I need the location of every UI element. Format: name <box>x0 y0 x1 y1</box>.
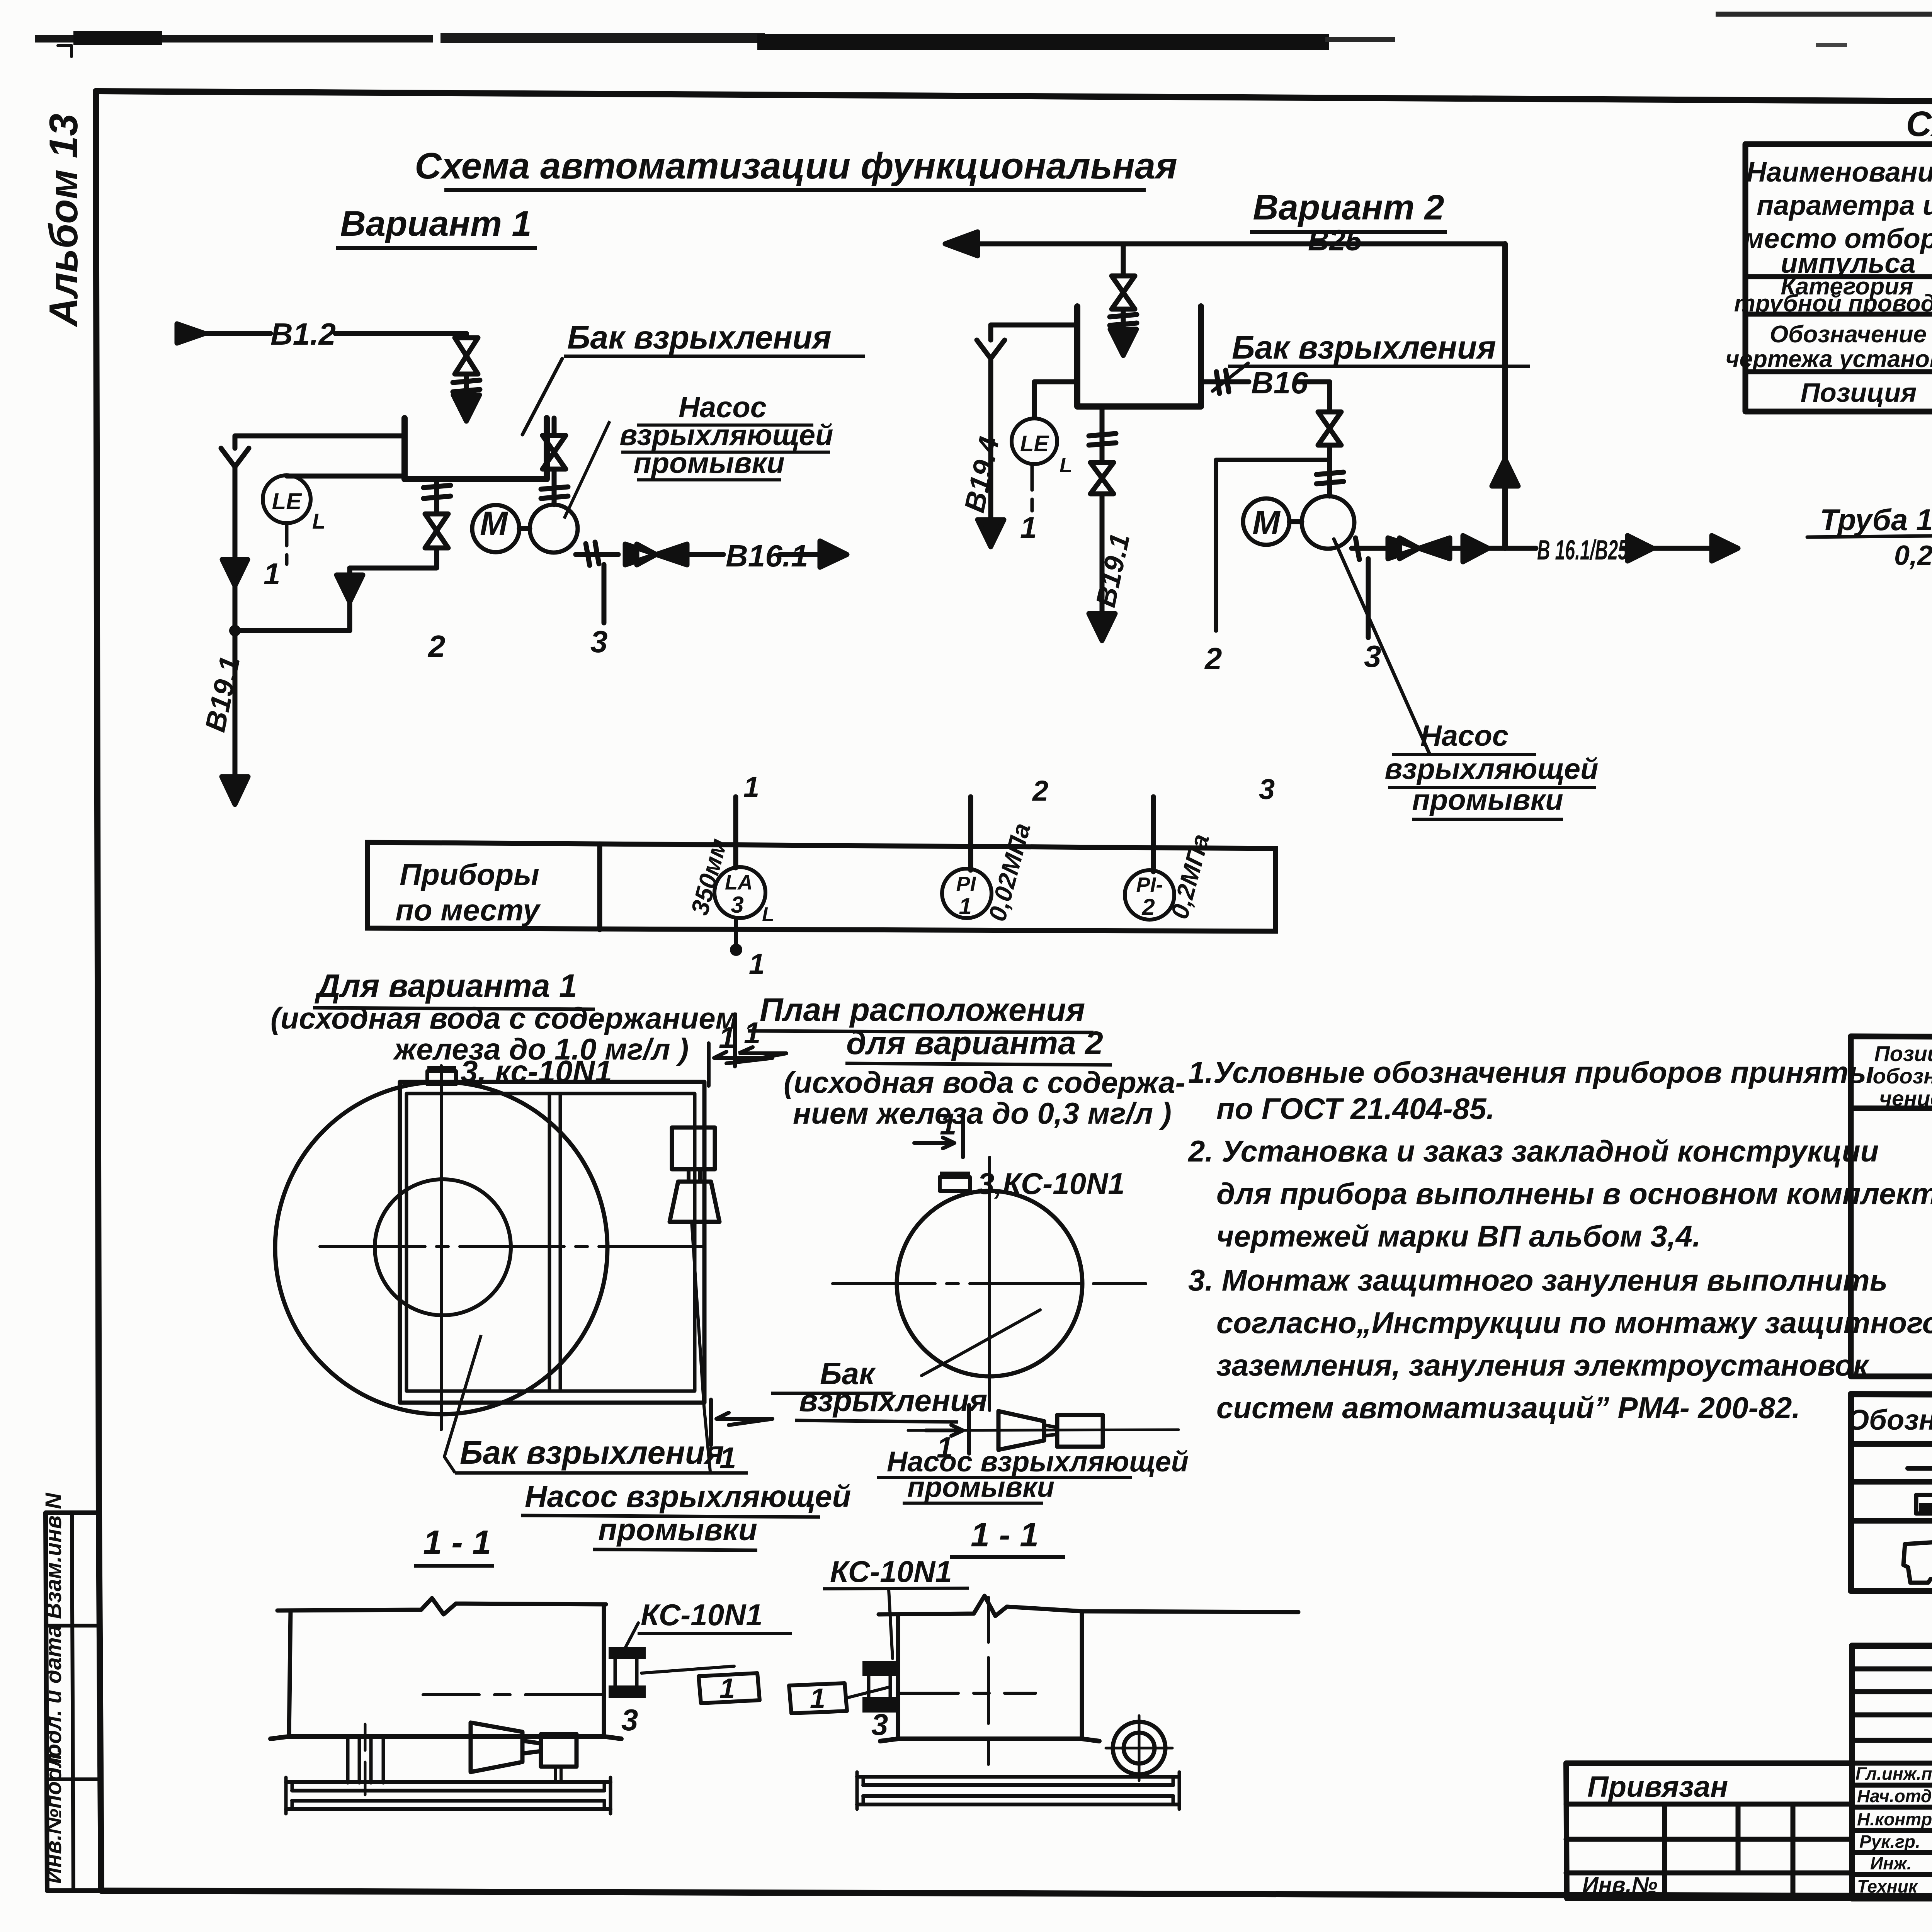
svg-text:3: 3 <box>1364 639 1381 673</box>
svg-text:М: М <box>480 505 509 542</box>
leader насос2 <box>1334 539 1430 754</box>
svg-text:LA: LA <box>725 871 753 894</box>
svg-text:Позиция: Позиция <box>1801 378 1917 408</box>
plan1 pump trapezoid <box>670 1182 719 1222</box>
boxed tag 1 v2 <box>789 1683 847 1713</box>
leader бак plan2 <box>922 1310 1040 1376</box>
base beam v1 right cap <box>604 1777 611 1814</box>
connection table outer <box>1745 144 1932 412</box>
KS-10N1 leader v1 <box>622 1623 638 1654</box>
tank section v1 top with break <box>277 1598 606 1614</box>
svg-text:1: 1 <box>749 948 765 980</box>
underline <box>823 1588 969 1589</box>
svg-text:0,2 м: 0,2 м <box>1894 540 1932 571</box>
plan2 horizontal centerline <box>833 1282 1146 1285</box>
support posts v1 <box>348 1739 383 1783</box>
arrow into tank 2 <box>1110 309 1136 355</box>
plan1 pump neck <box>689 1169 700 1182</box>
svg-text:LE: LE <box>1020 431 1049 456</box>
tank 1 (бак взрыхления) <box>405 418 547 479</box>
valve on tank2 inlet <box>1112 276 1135 309</box>
base beam v2 left cap <box>857 1772 863 1809</box>
pump circle variant1 <box>530 505 578 553</box>
junction dot below box <box>730 944 742 956</box>
small rows lines <box>1852 1669 1932 1740</box>
arrow B19.1 end <box>222 777 248 804</box>
instrument circle PI1 <box>942 869 992 918</box>
post centerline dash v1 <box>364 1724 367 1795</box>
section mark left v2 <box>735 1014 786 1066</box>
pump circle variant2 <box>1302 496 1354 549</box>
svg-text:В 16.1/В25: В 16.1/В25 <box>1537 535 1628 566</box>
underline <box>414 1564 494 1568</box>
svg-text:3: 3 <box>590 624 608 659</box>
flange discharge2 <box>1355 538 1359 560</box>
svg-text:2: 2 <box>427 629 446 663</box>
wire drain jog <box>350 548 437 568</box>
привязан block outer <box>1566 1763 1852 1898</box>
wire below LA to dot <box>734 918 738 946</box>
scan streak band mid <box>440 33 765 43</box>
plan1 inner circle <box>375 1179 511 1315</box>
svg-text:М: М <box>1252 504 1281 541</box>
tank1 bottom drain wire <box>434 479 439 514</box>
svg-text:1 - 1: 1 - 1 <box>423 1523 491 1561</box>
scan streak heavy band <box>757 34 1329 50</box>
svg-text:РI-: РI- <box>1136 873 1163 896</box>
subtitle underline <box>1250 230 1447 234</box>
underlines насос v1 <box>621 425 830 480</box>
svg-text:Приборы: Приборы <box>400 857 539 891</box>
svg-text:РI: РI <box>956 872 976 896</box>
svg-text:1: 1 <box>719 1020 735 1054</box>
svg-text:систем автоматизаций” РМ4- 20: систем автоматизаций” РМ4- 200-82. <box>1216 1391 1800 1425</box>
svg-text:для прибора выполнены в основн: для прибора выполнены в основном комплек… <box>1216 1177 1932 1211</box>
svg-text:(исходная вода с содержа-: (исходная вода с содержа- <box>784 1065 1185 1099</box>
svg-text:Обозначение: Обозначение <box>1847 1404 1932 1436</box>
pump trapezoid section v1 <box>471 1723 522 1772</box>
section mark bottom v1 <box>711 1400 772 1445</box>
wire tank1 funnel line <box>235 436 405 448</box>
underline <box>638 1632 792 1635</box>
level line dash-dot v1 <box>423 1693 605 1696</box>
svg-text:Насос взрыхляющей: Насос взрыхляющей <box>525 1479 851 1514</box>
wire below valve <box>464 374 469 393</box>
svg-text:нием железа до 0,3 мг/л ): нием железа до 0,3 мг/л ) <box>793 1096 1172 1130</box>
nozzle v2 <box>869 1672 890 1699</box>
plan1 pump leader long <box>692 1222 710 1471</box>
arrow B25 out left <box>945 232 978 256</box>
wire drain continue down <box>233 631 238 775</box>
svg-text:обозна: обозна <box>1873 1064 1932 1088</box>
wire B25 main horizontal <box>974 241 1505 247</box>
motor M circle variant1 <box>472 505 519 552</box>
wire above LA <box>733 797 738 868</box>
motor M circle variant2 <box>1243 498 1289 545</box>
привязан row line <box>1566 1802 1852 1807</box>
underline <box>455 1471 748 1475</box>
funnel variant2 <box>977 340 1005 518</box>
svg-text:3: 3 <box>731 892 743 918</box>
svg-text:Инж.: Инж. <box>1870 1853 1912 1873</box>
subtitle underline <box>336 246 537 250</box>
row under обозначение <box>1745 369 1932 374</box>
svg-text:2: 2 <box>1141 894 1155 920</box>
svg-text:Позиц.: Позиц. <box>1874 1041 1932 1066</box>
underlines <box>521 1515 820 1550</box>
heading underline <box>313 1008 595 1009</box>
flange on inlet <box>453 380 480 392</box>
svg-text:L: L <box>762 903 774 926</box>
box divider <box>597 844 602 930</box>
svg-text:КС-10N1: КС-10N1 <box>830 1554 952 1588</box>
base beam v1 bottom flange <box>286 1801 611 1809</box>
труба callout underline <box>1807 535 1932 537</box>
wire above PI1 <box>968 797 973 870</box>
wire below LE dashed <box>285 523 289 564</box>
base beam v2 bottom flange <box>857 1796 1179 1804</box>
svg-text:по ГОСТ 21.404-85.: по ГОСТ 21.404-85. <box>1216 1092 1495 1126</box>
heading underline <box>748 1031 1094 1032</box>
junction dot <box>229 625 241 636</box>
node B1.2 inlet arrow <box>177 324 205 343</box>
svg-text:1: 1 <box>719 1673 735 1704</box>
instrument circle PI2 <box>1125 870 1174 920</box>
svg-text:2. Установка и заказ заклад: 2. Установка и заказ закладной конструкц… <box>1187 1134 1879 1168</box>
svg-text:КС-10N1: КС-10N1 <box>641 1598 763 1632</box>
leader tank2 label <box>1213 363 1248 391</box>
svg-text:взрыхления: взрыхления <box>799 1383 987 1418</box>
svg-text:LE: LE <box>272 488 303 514</box>
wire after label <box>780 552 819 557</box>
wire motor to pump <box>519 526 530 531</box>
flange lower left wall v2 <box>862 1697 898 1713</box>
center dash line v2 <box>987 1597 990 1764</box>
stamp strip divider row 1 <box>46 1624 100 1628</box>
svg-text:Инв.№подл.: Инв.№подл. <box>41 1747 66 1884</box>
svg-text:L: L <box>312 509 325 533</box>
nozzle between flanges <box>615 1659 637 1685</box>
pump crosshair v2 <box>1106 1716 1172 1781</box>
wire B16 right <box>1298 382 1330 412</box>
svg-text:чертежей марки ВП альбом: чертежей марки ВП альбом 3,4. <box>1216 1219 1701 1253</box>
boxed tag leader v2 <box>847 1687 889 1698</box>
svg-text:3: 3 <box>871 1708 888 1742</box>
pump discharge wire <box>576 552 618 557</box>
valve on tank1 drain <box>425 514 448 548</box>
frame left <box>96 91 101 1891</box>
привязан grid lines <box>1566 1839 1852 1873</box>
stamp strip divider row 2 <box>46 1777 100 1781</box>
svg-text:чение: чение <box>1879 1086 1932 1111</box>
section mark top v1 <box>709 1043 772 1086</box>
wire arrow to junction <box>347 568 352 631</box>
tap 3 v2 wire <box>1366 559 1371 638</box>
svg-text:Взам.инв.N: Взам.инв.N <box>41 1493 66 1619</box>
svg-text:Наименование: Наименование <box>1747 157 1932 188</box>
flange on drain2 <box>1089 434 1116 445</box>
symbol external device rect <box>1916 1495 1932 1514</box>
wire suction2 down <box>1327 445 1332 496</box>
flange lower on right wall <box>609 1685 646 1698</box>
flange on suction2 <box>1316 472 1344 484</box>
wire after B16.1/B25 label <box>1622 546 1729 551</box>
wire suction down <box>552 469 557 505</box>
valve on drain2 <box>1090 463 1114 494</box>
title block bottom <box>1852 1895 1932 1901</box>
wire suction along wall <box>552 418 557 435</box>
flange on inlet2 <box>1110 315 1137 325</box>
plan2 circle <box>897 1191 1082 1376</box>
plan2 pump centerline <box>908 1430 1179 1430</box>
wire below LE2 dashed <box>1031 464 1034 511</box>
plan1 horizontal centerline dash-dot <box>320 1245 704 1248</box>
scan streak top-right thin <box>1716 12 1932 17</box>
legend row1 bottom <box>1851 1479 1932 1485</box>
flange upper on right wall <box>609 1647 646 1659</box>
svg-text:Н.контр.: Н.контр. <box>1857 1809 1932 1829</box>
wire motor2 to pump2 <box>1289 519 1302 524</box>
привязан grid verticals <box>1665 1804 1793 1898</box>
svg-text:1: 1 <box>264 557 280 591</box>
wire junction horizontal <box>235 628 350 633</box>
svg-text:взрыхляющей: взрыхляющей <box>1385 753 1599 786</box>
svg-text:2: 2 <box>1204 641 1222 676</box>
small corner mark top-left <box>58 46 71 56</box>
check valve variant2 <box>1388 538 1450 559</box>
svg-text:Рук.гр.: Рук.гр. <box>1859 1832 1920 1852</box>
pump neck v1 <box>522 1741 541 1753</box>
leader to tank1 label <box>522 359 562 435</box>
flow arrow down on funnel line <box>222 560 248 586</box>
tank section v2 walls <box>898 1611 1082 1739</box>
underline <box>950 1555 1065 1559</box>
svg-text:Вариант 2: Вариант 2 <box>1253 188 1444 227</box>
underlines <box>877 1478 1132 1503</box>
svg-text:План расположения: План расположения <box>760 992 1085 1028</box>
svg-text:Техник: Техник <box>1857 1876 1918 1896</box>
spec header bottom <box>1851 1108 1932 1109</box>
svg-text:3: 3 <box>1259 773 1275 805</box>
svg-text:1: 1 <box>810 1683 825 1714</box>
tank section v1 bottom <box>270 1736 621 1739</box>
main riser wire <box>1502 244 1508 548</box>
check valve variant1 <box>625 544 687 565</box>
svg-text:1 - 1: 1 - 1 <box>971 1515 1039 1554</box>
wire tank1 left tap to LE <box>287 474 405 479</box>
svg-text:1: 1 <box>940 1107 956 1141</box>
scan streak blob left <box>73 31 162 45</box>
arrow into tank 1 <box>453 393 480 421</box>
gland box plan1 <box>427 1071 456 1084</box>
base beam v1 top flange <box>286 1782 611 1791</box>
base beam v2 right cap <box>1173 1772 1179 1809</box>
wire to B16.1 <box>689 552 723 557</box>
svg-text:2: 2 <box>1032 775 1048 807</box>
row under patrubki full <box>1745 274 1932 279</box>
plan1 support frame outer <box>400 1082 704 1403</box>
wire tank2 LE tap <box>1034 382 1077 418</box>
plan2 pump trapezoid <box>998 1411 1044 1450</box>
svg-text:L: L <box>1060 454 1072 477</box>
plan2 pump neck <box>1044 1425 1057 1436</box>
section mark above circle v2 <box>914 1114 963 1157</box>
legend outer <box>1851 1394 1932 1591</box>
tank section v1 walls <box>289 1604 604 1736</box>
приборы по месту box <box>367 842 1276 931</box>
wire inlet right <box>335 333 466 338</box>
funnel (drain) variant1 <box>221 448 249 556</box>
wire drain2 down <box>1100 494 1105 614</box>
flange upper left wall v2 <box>862 1661 898 1676</box>
base beam v2 top flange <box>857 1777 1179 1785</box>
svg-text:1: 1 <box>1020 510 1037 544</box>
svg-text:Альбом 13: Альбом 13 <box>41 114 86 328</box>
title underline <box>444 188 1146 192</box>
section mark pump v2 <box>926 1405 969 1454</box>
motor foot v1 <box>556 1767 561 1781</box>
svg-text:В25: В25 <box>1308 224 1362 257</box>
stamp strip outer box <box>46 1513 101 1891</box>
svg-text:Бак взрыхления: Бак взрыхления <box>1232 329 1496 366</box>
boxed tag 1 leader v1 <box>641 1666 734 1673</box>
svg-text:Обозначение: Обозначение <box>1770 321 1927 348</box>
wire tank2 funnel tap <box>991 325 1077 340</box>
underline <box>845 1063 1112 1065</box>
svg-text:1: 1 <box>744 1016 760 1050</box>
underlines <box>771 1393 958 1422</box>
frame bottom <box>101 1891 1932 1898</box>
scan streak band top-left <box>35 35 433 43</box>
arrow right B16.1/B25 <box>1712 536 1738 561</box>
tank section v2 bottom <box>880 1739 1099 1741</box>
svg-text:Труба 14х2: Труба 14х2 <box>1820 503 1932 537</box>
svg-text:3: 3 <box>621 1703 638 1737</box>
frame top <box>96 91 1932 105</box>
svg-text:Бак взрыхления: Бак взрыхления <box>460 1434 724 1471</box>
svg-text:чертежа установки: чертежа установки <box>1725 346 1932 372</box>
title block left edge names <box>1849 1646 1855 1898</box>
plan1 outer circle <box>275 1082 607 1414</box>
arrow left B16.1/B25 <box>1628 536 1653 561</box>
symbol grounding conductor pistol <box>1903 1542 1932 1583</box>
svg-text:Насос: Насос <box>1420 719 1509 752</box>
svg-text:В16: В16 <box>1251 366 1308 400</box>
svg-text:В1.2: В1.2 <box>270 317 336 351</box>
underline <box>1228 365 1530 368</box>
leader бак plan1 <box>444 1335 481 1473</box>
instrument circle LA3 <box>714 867 765 918</box>
wire inlet branch down <box>1121 244 1126 276</box>
valve on suction2 <box>1318 412 1341 445</box>
spec table outer <box>1851 1036 1932 1376</box>
level line dash-dot v2 <box>900 1692 1036 1695</box>
svg-text:Бак взрыхления: Бак взрыхления <box>567 319 832 355</box>
arrow B19.4 end <box>978 520 1004 547</box>
arrow B16.1 out <box>820 541 847 567</box>
LE instrument circle variant1 <box>263 475 311 523</box>
svg-text:Для варианта 1: Для варианта 1 <box>315 968 577 1004</box>
flange on discharge <box>586 542 599 565</box>
names rows lines <box>1852 1763 1932 1874</box>
svg-text:Привязан: Привязан <box>1587 1770 1728 1803</box>
svg-text:для варианта 2: для варианта 2 <box>846 1025 1103 1061</box>
KS leader v2 <box>889 1590 893 1658</box>
svg-text:(исходная вода с содержанием: (исходная вода с содержанием <box>270 1001 738 1035</box>
flange on drain <box>423 485 451 498</box>
base beam v1 left cap <box>286 1777 292 1814</box>
svg-text:1: 1 <box>959 893 971 919</box>
scan streak tail <box>1325 37 1395 42</box>
wire above PI2 <box>1151 797 1156 872</box>
plan1 support frame inner lines <box>406 1094 695 1391</box>
svg-text:3,КС-10N1: 3,КС-10N1 <box>978 1167 1125 1201</box>
svg-text:Нач.отд.: Нач.отд. <box>1857 1786 1932 1806</box>
pump circles front v2 <box>1113 1722 1165 1774</box>
plan1 strut pair <box>549 1094 560 1391</box>
flange on suction <box>541 487 568 498</box>
gland box plan2 <box>940 1177 970 1191</box>
pump2 discharge wire <box>1352 546 1386 551</box>
legend header bottom <box>1851 1441 1932 1447</box>
LE instrument circle variant2 <box>1012 418 1057 464</box>
plan2 pump motor rect <box>1057 1415 1103 1447</box>
svg-text:1: 1 <box>743 771 759 803</box>
legend row2 bottom <box>1851 1518 1932 1524</box>
plan2 vertical centerline <box>988 1157 991 1410</box>
arrow up on riser <box>1492 459 1518 486</box>
title block top heavy line <box>1852 1643 1932 1649</box>
symbol cable line <box>1908 1466 1932 1471</box>
svg-text:по месту: по месту <box>395 893 541 927</box>
tap 3 wire down <box>602 565 607 623</box>
svg-text:параметра и: параметра и <box>1757 190 1932 221</box>
stamp strip inner divider vertical <box>72 1513 73 1891</box>
valve on tank-1 inlet <box>455 338 478 374</box>
svg-text:Гл.инж.пр: Гл.инж.пр <box>1855 1764 1932 1784</box>
arrow B19.1 v2 <box>1089 614 1115 641</box>
tank2 outlet flange <box>1201 370 1249 393</box>
valve on suction <box>543 435 566 469</box>
svg-text:Вариант 1: Вариант 1 <box>340 204 531 243</box>
tank2 drain wire <box>1100 406 1105 463</box>
svg-text:3. Монтаж защитного зануления: 3. Монтаж защитного зануления выполнить <box>1188 1263 1888 1297</box>
underline <box>564 355 865 358</box>
wire funnel line to junction <box>233 586 238 631</box>
svg-text:промывки: промывки <box>907 1471 1054 1503</box>
wire discharge to tee <box>1451 546 1536 551</box>
motor rect section v1 <box>541 1734 577 1767</box>
svg-text:заземления, зануления электро: заземления, зануления электроустановок <box>1216 1348 1870 1382</box>
svg-text:согласно„Инструкции по монтажу: согласно„Инструкции по монтажу защитного <box>1216 1306 1932 1340</box>
leader насос v1 <box>564 421 610 519</box>
tank section v2 top with break <box>879 1596 1298 1616</box>
svg-text:трубной проводки: трубной проводки <box>1734 290 1932 317</box>
underlines насос v2 <box>1388 754 1596 819</box>
svg-text:Схема автоматизации функционал: Схема автоматизации функциональная <box>415 145 1177 187</box>
svg-text:В16.1: В16.1 <box>726 539 808 573</box>
boxed tag 1 v1 <box>699 1673 760 1703</box>
svg-text:Инв.№: Инв.№ <box>1582 1872 1657 1898</box>
plan1 vertical centerline <box>440 1066 443 1430</box>
instrument tap 2 wire <box>1216 460 1330 631</box>
wire inlet left <box>198 331 270 336</box>
row under категория <box>1745 312 1932 317</box>
svg-text:1.Условные обозначения прибор: 1.Условные обозначения приборов приняты <box>1188 1055 1874 1089</box>
plan1 pump square <box>672 1128 715 1169</box>
svg-text:Схема соединений внешних про: Схема соединений внешних проводок <box>1906 104 1932 144</box>
tank 2 (бак взрыхления) <box>1077 306 1201 406</box>
